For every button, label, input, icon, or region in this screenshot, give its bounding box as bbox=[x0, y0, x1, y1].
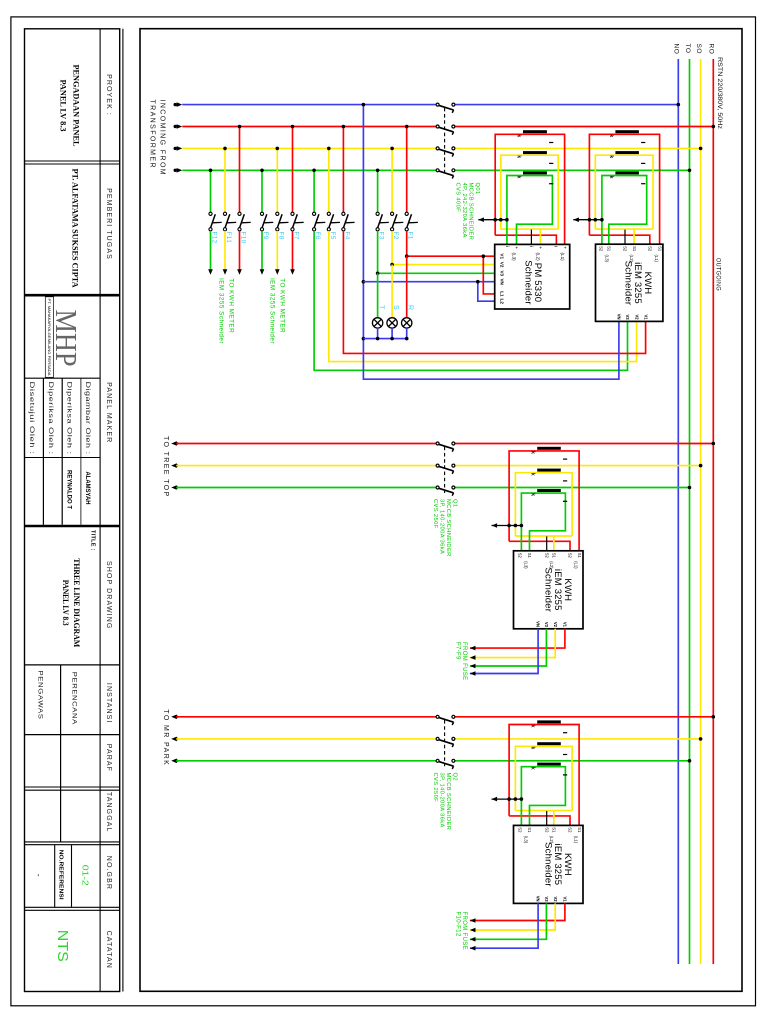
svg-text:F1: F1 bbox=[407, 232, 414, 240]
meter box KWH1 iEM3255 bbox=[596, 244, 663, 321]
svg-text:k: k bbox=[530, 451, 536, 454]
fuse F7 bbox=[292, 214, 297, 228]
bus T green bbox=[176, 487, 436, 489]
wire fuse F10 feed bbox=[239, 127, 241, 213]
row divider title/instansi bbox=[25, 664, 120, 666]
sense wire VN blue bbox=[470, 629, 538, 674]
breaker Q01 pole N bbox=[436, 103, 439, 106]
svg-text:V3: V3 bbox=[625, 314, 630, 320]
breaker Q01 pole T bbox=[436, 169, 439, 172]
fuse F1 bbox=[407, 214, 412, 228]
svg-text:Schneider: Schneider bbox=[542, 568, 553, 613]
svg-text:k: k bbox=[530, 493, 536, 496]
svg-text:S2: S2 bbox=[599, 246, 604, 252]
svg-text:V1: V1 bbox=[643, 314, 648, 320]
svg-text:S1: S1 bbox=[632, 246, 637, 252]
svg-text:(L2): (L2) bbox=[549, 561, 554, 569]
svg-text:F3: F3 bbox=[378, 232, 385, 240]
outgoing arrow T bbox=[171, 759, 177, 764]
svg-text:S1: S1 bbox=[527, 553, 532, 559]
svg-text:k: k bbox=[515, 176, 521, 179]
svg-text:VN: VN bbox=[617, 314, 622, 320]
breaker Q2 pole T bbox=[436, 759, 439, 762]
svg-text:CVS 400F: CVS 400F bbox=[455, 183, 461, 213]
svg-text:NTS: NTS bbox=[54, 930, 71, 962]
svg-text:S1: S1 bbox=[607, 246, 612, 252]
svg-text:S1: S1 bbox=[552, 827, 557, 833]
svg-text:SO: SO bbox=[695, 44, 702, 54]
svg-text:T: T bbox=[378, 305, 385, 310]
svg-text:Q01: Q01 bbox=[474, 183, 480, 195]
wire lamp T stub bbox=[377, 273, 379, 317]
fuse F9 bbox=[262, 214, 267, 228]
svg-text:(L3): (L3) bbox=[524, 561, 529, 569]
CT bar S PM5330 bbox=[523, 151, 547, 154]
svg-text:k: k bbox=[515, 155, 521, 158]
fuse F3 bbox=[377, 214, 382, 228]
svg-text:F11: F11 bbox=[225, 232, 232, 244]
CT loop green bbox=[521, 493, 565, 551]
wire neutral tap blue bbox=[363, 105, 619, 380]
bus R red bbox=[176, 443, 436, 445]
CT loop red bbox=[509, 725, 579, 826]
svg-text:V1: V1 bbox=[563, 622, 568, 628]
svg-text:S2: S2 bbox=[544, 827, 549, 833]
lamp T bbox=[372, 318, 382, 328]
PM5330 terminal stub black bbox=[530, 230, 532, 245]
svg-text:CVS 250F: CVS 250F bbox=[432, 499, 438, 529]
lamp R bbox=[402, 318, 412, 328]
sense wire V3 green bbox=[470, 629, 547, 666]
svg-text:V3: V3 bbox=[544, 896, 549, 902]
row divider panel maker/title bbox=[25, 525, 120, 528]
outgoing arrow S bbox=[171, 737, 177, 742]
svg-text:CVS 250F: CVS 250F bbox=[432, 773, 438, 803]
vertical line TO phase bbox=[689, 59, 691, 964]
CT loop green KWH1 bbox=[602, 176, 647, 245]
svg-text:i: i bbox=[505, 246, 510, 247]
svg-text:TITLE :: TITLE : bbox=[90, 530, 96, 551]
svg-text:ALAMSYAH: ALAMSYAH bbox=[84, 472, 90, 505]
outgoing arrow R bbox=[171, 715, 177, 720]
wire PM L1 red jog bbox=[483, 256, 494, 294]
breaker Q1 pole R bbox=[436, 442, 439, 445]
fuse F12 bbox=[210, 214, 215, 228]
meter box PM5330 bbox=[495, 244, 570, 309]
bus S yellow bbox=[176, 465, 436, 467]
svg-text:MCCB SCHNEIDER: MCCB SCHNEIDER bbox=[445, 773, 451, 831]
svg-text:Disetujui Oleh :: Disetujui Oleh : bbox=[28, 382, 35, 455]
CT loop green bbox=[521, 767, 565, 826]
PM5330 secondary arrow bbox=[478, 219, 507, 221]
svg-text:F8: F8 bbox=[277, 232, 284, 240]
svg-text:V3: V3 bbox=[500, 270, 505, 276]
fuse F4 bbox=[343, 214, 348, 228]
sense wire VN blue bbox=[470, 903, 538, 948]
CT secondary arrow bbox=[492, 798, 522, 800]
wire lamp R stub bbox=[406, 256, 408, 318]
svg-text:FROM FUSE: FROM FUSE bbox=[461, 912, 467, 950]
sense wire V2 yellow bbox=[470, 629, 555, 658]
breaker Q01 pole S bbox=[436, 147, 439, 150]
wire fuse F10 tail to kwh meter bbox=[239, 231, 241, 270]
svg-text:VN: VN bbox=[536, 896, 541, 902]
row divider no.gbr/catatan bbox=[25, 906, 120, 908]
CT bar T PM5330 bbox=[523, 171, 547, 174]
sense wire V1 red bbox=[470, 629, 565, 648]
incoming source mark T bbox=[174, 169, 177, 172]
svg-text:S2: S2 bbox=[517, 827, 522, 833]
CT bar S bbox=[537, 742, 561, 745]
svg-text:F7-F9: F7-F9 bbox=[455, 642, 461, 660]
svg-text:F5: F5 bbox=[329, 232, 336, 240]
svg-text:+: + bbox=[538, 246, 543, 249]
svg-text:SHOP DRAWING: SHOP DRAWING bbox=[105, 561, 112, 629]
svg-text:S2: S2 bbox=[517, 553, 522, 559]
wire fuse F7 feed bbox=[292, 127, 294, 213]
svg-text:S2: S2 bbox=[568, 827, 573, 833]
fuse F10 bbox=[239, 214, 244, 228]
incoming source mark S bbox=[174, 147, 177, 150]
CT bar T KWH1 bbox=[615, 171, 639, 174]
svg-text:(L2): (L2) bbox=[536, 253, 541, 262]
svg-text:01-2: 01-2 bbox=[81, 865, 90, 887]
svg-text:i: i bbox=[529, 246, 534, 247]
instansi column divider bbox=[60, 665, 62, 842]
CT loop yellow bbox=[515, 746, 572, 810]
wire fuse F8 tail to kwh meter bbox=[276, 231, 278, 270]
svg-text:k: k bbox=[515, 135, 521, 138]
svg-text:MHP: MHP bbox=[49, 310, 84, 367]
incoming source mark N bbox=[174, 103, 177, 106]
CT loop yellow bbox=[515, 473, 572, 536]
row divider instansi/paraf bbox=[25, 734, 120, 736]
wire F2 to PM V2 bbox=[391, 231, 393, 265]
CT bar R KWH1 bbox=[615, 130, 639, 133]
svg-text:PT. MAHAKARYA-GEMILANG PERSADA: PT. MAHAKARYA-GEMILANG PERSADA bbox=[47, 299, 51, 377]
bus N blue top section bbox=[182, 104, 436, 106]
svg-text:Schneider: Schneider bbox=[522, 260, 533, 305]
svg-text:(L3): (L3) bbox=[605, 255, 610, 263]
svg-text:S1: S1 bbox=[552, 553, 557, 559]
wire fuse F3 feed bbox=[377, 170, 379, 212]
sense wire V3 green bbox=[470, 903, 547, 939]
wire fuse F2 feed bbox=[391, 148, 393, 212]
CT loop green PM5330 bbox=[507, 176, 553, 245]
svg-text:TO MR PARK: TO MR PARK bbox=[162, 709, 169, 766]
sense wire V1 red bbox=[470, 903, 565, 920]
svg-text:PROYEK :: PROYEK : bbox=[105, 74, 112, 116]
svg-text:S1: S1 bbox=[527, 827, 532, 833]
meter box KWH iEM3255 bbox=[514, 825, 584, 903]
svg-text:Digambar Oleh :: Digambar Oleh : bbox=[84, 382, 91, 455]
svg-text:k: k bbox=[530, 725, 536, 728]
svg-text:V2: V2 bbox=[500, 262, 505, 268]
svg-text:+: + bbox=[562, 246, 567, 249]
wire fuse F8 feed bbox=[276, 148, 278, 212]
svg-text:F9: F9 bbox=[262, 232, 269, 240]
breaker Q2 pole S bbox=[436, 737, 439, 740]
wire fuse F4 feed bbox=[342, 127, 344, 213]
svg-text:V2: V2 bbox=[553, 896, 558, 902]
wire fuse F11 feed bbox=[224, 148, 226, 212]
svg-text:REYNALDO T: REYNALDO T bbox=[66, 470, 72, 509]
svg-text:F4: F4 bbox=[343, 232, 350, 240]
svg-text:V1: V1 bbox=[563, 896, 568, 902]
CT bar S bbox=[537, 469, 561, 472]
svg-text:+: + bbox=[514, 246, 519, 249]
svg-text:THREE LINE DIAGRAM: THREE LINE DIAGRAM bbox=[72, 558, 81, 647]
wire F5 sense to kwh V2 bbox=[329, 231, 637, 362]
svg-text:MCCB SCHNEIDER: MCCB SCHNEIDER bbox=[468, 183, 474, 241]
svg-text:S1: S1 bbox=[577, 827, 582, 833]
svg-text:V3: V3 bbox=[544, 622, 549, 628]
svg-text:Q1: Q1 bbox=[452, 499, 458, 507]
svg-text:(L2): (L2) bbox=[549, 836, 554, 844]
CT loop red PM5330 bbox=[495, 134, 564, 244]
svg-text:k: k bbox=[530, 767, 536, 770]
svg-text:k: k bbox=[608, 155, 614, 158]
svg-text:RO: RO bbox=[708, 44, 715, 55]
svg-text:PARAF: PARAF bbox=[105, 744, 112, 772]
svg-text:F2: F2 bbox=[392, 232, 399, 240]
logo strip divider bbox=[25, 377, 101, 379]
title block outer box bbox=[25, 29, 120, 992]
svg-text:L1: L1 bbox=[500, 291, 505, 297]
wire F3 to PM V3 bbox=[377, 231, 379, 273]
svg-text:i: i bbox=[554, 246, 559, 247]
svg-text:FROM FUSE: FROM FUSE bbox=[461, 642, 467, 680]
svg-text:R: R bbox=[407, 305, 414, 310]
svg-text:F6: F6 bbox=[314, 232, 321, 240]
wire lamp return blue bbox=[363, 338, 406, 340]
wire F6 sense to kwh V3 bbox=[314, 231, 627, 370]
logo small text strip bbox=[45, 297, 53, 378]
svg-text:VN: VN bbox=[536, 621, 541, 627]
row divider tanggal/no.gbr bbox=[25, 841, 120, 843]
svg-text:PENGADAAN PANEL: PENGADAAN PANEL bbox=[72, 65, 81, 148]
fuse F5 bbox=[329, 214, 334, 228]
no.gbr columns bbox=[54, 845, 56, 908]
breaker Q2 trip link dashed bbox=[444, 720, 446, 766]
svg-text:PT. ALFATAMA SUKSES CIPTA: PT. ALFATAMA SUKSES CIPTA bbox=[71, 169, 80, 288]
drawing frame bbox=[140, 29, 742, 992]
svg-text:-: - bbox=[34, 874, 43, 877]
wire fuse F12 feed bbox=[210, 170, 212, 212]
svg-text:S2: S2 bbox=[568, 553, 573, 559]
outgoing arrow R bbox=[171, 441, 177, 446]
CT bar S KWH1 bbox=[615, 151, 639, 154]
svg-text:V2: V2 bbox=[553, 622, 558, 628]
CT bar T bbox=[537, 489, 561, 492]
wire fuse F7 tail to kwh meter bbox=[292, 231, 294, 270]
CT secondary arrow bbox=[492, 525, 522, 527]
svg-text:VN: VN bbox=[500, 279, 505, 286]
row divider paraf/tanggal bbox=[25, 786, 120, 788]
bus T green top section bbox=[182, 169, 436, 171]
svg-text:F7: F7 bbox=[293, 232, 300, 240]
svg-text:4P, 242-320A 36kA: 4P, 242-320A 36kA bbox=[461, 183, 467, 238]
svg-text:S2: S2 bbox=[544, 553, 549, 559]
bus S yellow bbox=[176, 738, 436, 740]
svg-text:S: S bbox=[392, 305, 399, 310]
wire fuse F9 tail to kwh meter bbox=[261, 231, 263, 270]
panel maker columns bbox=[42, 378, 44, 525]
svg-text:V1: V1 bbox=[500, 253, 505, 259]
svg-text:NO: NO bbox=[673, 44, 680, 55]
fuse F2 bbox=[392, 214, 397, 228]
incoming source mark R bbox=[174, 125, 177, 128]
wire fuse F11 tail to kwh meter bbox=[224, 231, 226, 270]
fuse F8 bbox=[277, 214, 282, 228]
svg-text:(L2): (L2) bbox=[629, 255, 634, 263]
breaker Q1 trip link dashed bbox=[444, 447, 446, 493]
meter box KWH iEM3255 bbox=[514, 551, 584, 629]
svg-text:(L1): (L1) bbox=[654, 255, 659, 263]
wire F4 sense to kwh V1 bbox=[343, 231, 645, 354]
row divider proyek/pemberi tugas bbox=[25, 160, 120, 162]
breaker Q01 trip link dashed bbox=[444, 108, 446, 176]
svg-text:NO.GBR: NO.GBR bbox=[105, 856, 112, 890]
wire fuse F1 feed bbox=[406, 127, 408, 213]
svg-text:3P, 140-200A 36kA: 3P, 140-200A 36kA bbox=[439, 499, 445, 554]
wire fuse F12 tail to kwh meter bbox=[210, 231, 212, 270]
CT bar R bbox=[537, 720, 561, 723]
svg-text:CATATAN: CATATAN bbox=[105, 931, 112, 969]
bus S yellow top section bbox=[182, 147, 436, 149]
svg-text:TRANSFORMER: TRANSFORMER bbox=[149, 100, 156, 169]
svg-text:Q2: Q2 bbox=[452, 773, 458, 781]
breaker Q1 pole S bbox=[436, 464, 439, 467]
svg-text:Schneider: Schneider bbox=[542, 842, 553, 887]
svg-text:TO KWH METER: TO KWH METER bbox=[279, 278, 286, 333]
svg-text:MCCB SCHNEIDER: MCCB SCHNEIDER bbox=[445, 499, 451, 557]
vertical line NO neutral bbox=[677, 59, 679, 964]
svg-text:(L1): (L1) bbox=[560, 253, 565, 262]
svg-text:k: k bbox=[530, 473, 536, 476]
wire fuse F9 feed bbox=[261, 170, 263, 212]
svg-text:(L3): (L3) bbox=[512, 253, 517, 262]
svg-text:(L3): (L3) bbox=[524, 836, 529, 844]
svg-text:V2: V2 bbox=[634, 314, 639, 320]
CT loop yellow KWH1 bbox=[595, 155, 653, 229]
outgoing arrow S bbox=[171, 463, 177, 468]
bus R red top section bbox=[182, 126, 436, 128]
svg-text:L2: L2 bbox=[500, 299, 505, 305]
svg-text:TO: TO bbox=[684, 44, 691, 54]
bus T green bbox=[176, 760, 436, 762]
svg-text:k: k bbox=[608, 135, 614, 138]
svg-text:PANEL LV 8.3: PANEL LV 8.3 bbox=[61, 580, 70, 626]
svg-text:(L1): (L1) bbox=[574, 561, 579, 569]
svg-text:PERENCANA: PERENCANA bbox=[71, 672, 78, 725]
svg-text:NO.REFERENSI: NO.REFERENSI bbox=[57, 850, 63, 901]
svg-text:k: k bbox=[608, 176, 614, 179]
terminal stub black bbox=[546, 536, 548, 550]
CT bar R PM5330 bbox=[523, 130, 547, 133]
svg-text:S2: S2 bbox=[648, 246, 653, 252]
CT loop red KWH1 bbox=[589, 134, 659, 244]
svg-text:k: k bbox=[530, 747, 536, 750]
vertical line RO phase bbox=[712, 59, 714, 964]
svg-text:S1: S1 bbox=[577, 553, 582, 559]
svg-text:PEMBERI TUGAS: PEMBERI TUGAS bbox=[105, 188, 112, 260]
bus R red bbox=[176, 716, 436, 718]
svg-text:RSTN 220/380V, 50Hz: RSTN 220/380V, 50Hz bbox=[716, 57, 723, 129]
svg-text:INSTANSI: INSTANSI bbox=[105, 683, 112, 724]
svg-text:INCOMING FROM: INCOMING FROM bbox=[159, 100, 166, 177]
svg-text:3P, 140-200A 36kA: 3P, 140-200A 36kA bbox=[439, 773, 445, 828]
breaker Q01 pole R bbox=[436, 125, 439, 128]
sense wire V2 yellow bbox=[470, 903, 555, 930]
KWH1 terminal stub black bbox=[624, 230, 626, 245]
title block label column divider bbox=[99, 29, 101, 992]
CT bar T bbox=[537, 763, 561, 766]
row divider pemberi tugas/panel maker bbox=[25, 294, 120, 297]
CT bar R bbox=[537, 447, 561, 450]
fuse F11 bbox=[225, 214, 230, 228]
wire fuse F6 feed bbox=[313, 170, 315, 212]
svg-text:Diperiksa Oleh :: Diperiksa Oleh : bbox=[47, 382, 54, 455]
svg-text:(L1): (L1) bbox=[574, 836, 579, 844]
fuse F6 bbox=[314, 214, 319, 228]
svg-text:F10-F12: F10-F12 bbox=[455, 912, 461, 937]
svg-text:Diperiksa Oleh :: Diperiksa Oleh : bbox=[66, 382, 73, 455]
svg-text:TO TREE TOP: TO TREE TOP bbox=[162, 436, 169, 498]
CT loop red bbox=[509, 451, 579, 551]
wire PM VN blue bbox=[363, 281, 494, 283]
svg-text:OUTGOING: OUTGOING bbox=[715, 258, 721, 291]
vertical line SO phase bbox=[700, 59, 702, 964]
svg-text:PENGAWAS: PENGAWAS bbox=[37, 671, 44, 720]
breaker Q2 pole R bbox=[436, 715, 439, 718]
svg-text:S1: S1 bbox=[657, 246, 662, 252]
breaker Q1 pole T bbox=[436, 486, 439, 489]
outgoing arrow T bbox=[171, 485, 177, 490]
title block double right border bbox=[122, 29, 124, 992]
KWH1 secondary arrow bbox=[573, 219, 602, 221]
wire lamp S stub bbox=[391, 265, 393, 318]
lamp S bbox=[387, 318, 397, 328]
wire PM L2 blue jog bbox=[478, 282, 495, 302]
svg-text:iEM 3255 Schneider: iEM 3255 Schneider bbox=[218, 278, 225, 344]
svg-text:TO KWH METER: TO KWH METER bbox=[228, 278, 235, 333]
svg-text:TANGGAL: TANGGAL bbox=[105, 792, 112, 833]
svg-text:iEM 3255 Schneider: iEM 3255 Schneider bbox=[269, 278, 276, 344]
CT loop yellow PM5330 bbox=[501, 155, 558, 229]
svg-text:S2: S2 bbox=[623, 246, 628, 252]
svg-text:PANEL MAKER: PANEL MAKER bbox=[105, 382, 112, 443]
svg-text:PANEL LV 8.3: PANEL LV 8.3 bbox=[59, 80, 68, 132]
wire F1 to PM V1 bbox=[406, 231, 408, 256]
wire fuse F5 feed bbox=[328, 148, 330, 212]
svg-text:F10: F10 bbox=[240, 232, 247, 244]
svg-text:F12: F12 bbox=[211, 232, 218, 244]
terminal stub black bbox=[546, 811, 548, 825]
svg-text:Schneider: Schneider bbox=[622, 261, 633, 306]
